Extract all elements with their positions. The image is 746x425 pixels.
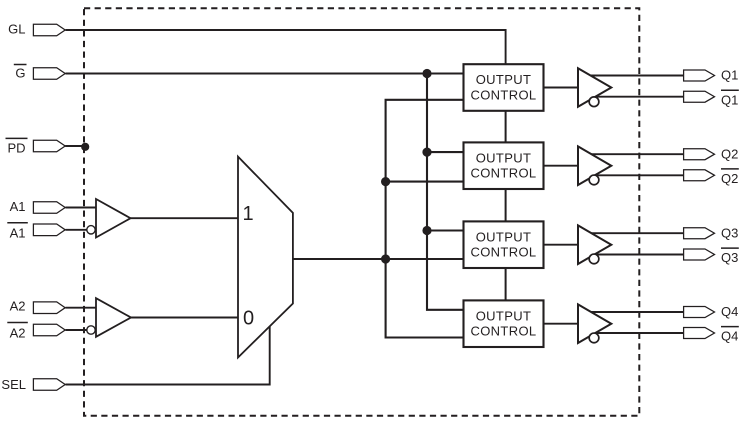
svg-text:Q2: Q2 — [721, 171, 738, 186]
svg-text:A2: A2 — [10, 299, 26, 314]
svg-text:OUTPUT: OUTPUT — [476, 72, 532, 87]
svg-text:PD: PD — [7, 140, 25, 155]
svg-text:Q3: Q3 — [721, 250, 738, 265]
svg-text:Q4: Q4 — [721, 329, 738, 344]
svg-text:Q4: Q4 — [721, 304, 738, 319]
svg-text:A1: A1 — [10, 226, 26, 241]
svg-text:Q2: Q2 — [721, 146, 738, 161]
svg-text:0: 0 — [243, 308, 254, 330]
svg-text:OUTPUT: OUTPUT — [476, 150, 532, 165]
svg-text:OUTPUT: OUTPUT — [476, 308, 532, 323]
svg-text:SEL: SEL — [1, 377, 26, 392]
svg-text:CONTROL: CONTROL — [470, 324, 536, 339]
svg-text:Q1: Q1 — [721, 68, 738, 83]
svg-text:G: G — [15, 66, 25, 81]
svg-text:Q1: Q1 — [721, 92, 738, 107]
svg-text:CONTROL: CONTROL — [470, 166, 536, 181]
svg-text:A1: A1 — [10, 199, 26, 214]
svg-text:CONTROL: CONTROL — [470, 245, 536, 260]
svg-text:Q3: Q3 — [721, 225, 738, 240]
svg-text:1: 1 — [242, 203, 253, 225]
svg-text:GL: GL — [8, 21, 25, 36]
svg-text:OUTPUT: OUTPUT — [476, 229, 532, 244]
svg-text:A2: A2 — [10, 326, 26, 341]
svg-text:CONTROL: CONTROL — [470, 88, 536, 103]
